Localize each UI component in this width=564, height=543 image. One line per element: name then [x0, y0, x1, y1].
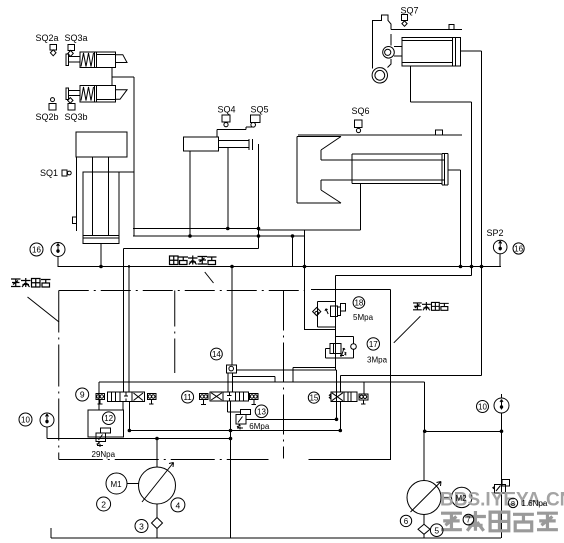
wire clamp cylinders to manifold [112, 77, 134, 236]
valve V15 solenoid drain [361, 400, 366, 404]
switch SQ2b circle [51, 98, 55, 102]
reducing valve U17 left branch [326, 348, 336, 357]
wire main low-pressure line [58, 266, 501, 268]
wedge CL1 clamp finger [116, 55, 127, 63]
switch SQ7 diamond [402, 21, 407, 26]
cylinder SQ4 body [184, 137, 219, 151]
junction dots [231, 265, 234, 268]
relief valve U18 body [330, 306, 337, 316]
svg-text:16: 16 [32, 246, 41, 255]
svg-text:SQ2b: SQ2b [36, 112, 59, 122]
svg-text:SQ4: SQ4 [218, 105, 236, 115]
svg-text:17: 17 [369, 340, 378, 349]
valve U18 arrow [325, 309, 328, 314]
groups inserted below [47, 15, 509, 539]
filter F1 diamond [152, 518, 163, 529]
cylinder SQ1 rod [93, 157, 109, 235]
wire bus A extension [259, 229, 361, 231]
circled 4 [171, 498, 185, 512]
valve V9 solenoid drains [98, 400, 154, 405]
gauge SP2 stub [499, 254, 501, 267]
circled 2 [97, 497, 111, 511]
switch SQ3b diamond [68, 98, 73, 104]
cylinder SQ6 rod [321, 160, 444, 180]
wire valve feed line [99, 382, 425, 431]
svg-text:SQ5: SQ5 [251, 105, 269, 115]
svg-text:14: 14 [212, 350, 221, 359]
circled 9 [76, 388, 89, 401]
switch SQ6 box [355, 120, 363, 128]
wire line to valve9 left [124, 249, 259, 393]
motor M1 circle [106, 473, 127, 494]
cylinder CL2 body [80, 86, 116, 102]
pump P2 circle [407, 481, 441, 515]
valve V13 body [236, 415, 246, 424]
cylinder SQ1 platen [76, 132, 127, 157]
valve V9 body [108, 392, 145, 402]
switch SQ2a box [50, 45, 57, 50]
leader line left manifold label [28, 297, 60, 322]
wedge CL2 clamp finger [116, 90, 127, 100]
circled 7 [463, 514, 474, 525]
svg-text:SQ3b: SQ3b [65, 112, 88, 122]
cylinder CL2 piston lines [94, 86, 115, 102]
wire U18 return [305, 329, 336, 331]
cylinder SQ4 rod end plates [249, 139, 252, 150]
wire CL1 to CL2 [111, 68, 113, 86]
circled 17 [367, 338, 379, 350]
circled 5 [430, 524, 443, 537]
solenoid circles V11 [201, 395, 204, 398]
pump P1 variable arrow [142, 463, 174, 503]
valve V12 relief body [96, 433, 105, 442]
valve V9 dividers and stripes [112, 392, 133, 402]
svg-text:10: 10 [478, 403, 487, 412]
valve V8 body [494, 484, 505, 493]
wire to valve9 right [128, 267, 130, 393]
reducing valve U17 body [330, 343, 333, 353]
switch SQ2a diamond [50, 50, 56, 56]
cylinder SQ7 barrel inner lines [402, 38, 456, 67]
cylinder SQ1 guide tab [73, 217, 77, 224]
spring CL1 [81, 53, 94, 67]
tank line [51, 528, 501, 538]
relief valve U18 side plate [337, 307, 340, 316]
valve V9 center marks [124, 392, 128, 402]
cylinder CL1 piston lines [94, 52, 115, 68]
valve V11 right solenoid [250, 394, 259, 400]
svg-text:5: 5 [434, 526, 439, 536]
wire SQ1 bottom port [100, 244, 102, 267]
svg-text:13: 13 [257, 407, 266, 416]
dashed middle manifold divider [174, 291, 176, 374]
svg-text:5Mpa: 5Mpa [353, 313, 374, 322]
bracket SQ7 small roller circle [383, 47, 395, 59]
pump1 tank return riser [230, 431, 232, 539]
gauge SP2 [493, 240, 507, 254]
circled 12 [102, 412, 115, 425]
wire U14 outlet to main line [236, 369, 336, 371]
svg-text:3: 3 [139, 522, 144, 532]
filter F2 diamond [418, 524, 430, 534]
wire SQ7 rod-end port [461, 51, 482, 375]
wire SQ6 bottom port [359, 184, 361, 231]
leader line right manifold label [394, 316, 421, 343]
bracket SQ6 notch diagonals [321, 137, 341, 204]
wire V15 through lines [337, 370, 364, 431]
svg-text:16: 16 [514, 245, 523, 254]
svg-text:M1: M1 [111, 480, 123, 489]
valve V15 cross position [332, 393, 343, 401]
valve V12 pilot box [101, 428, 111, 433]
svg-text:10: 10 [21, 416, 30, 425]
svg-text:1.6Npa: 1.6Npa [522, 499, 548, 508]
svg-text:29Npa: 29Npa [92, 450, 116, 459]
svg-text:15: 15 [309, 394, 318, 403]
wire V11 bottom port to tank riser [230, 401, 232, 538]
circled 11 [182, 391, 194, 403]
circled 6 [400, 515, 411, 526]
svg-text:6: 6 [404, 517, 409, 526]
circled 14 [211, 348, 223, 360]
gauge PG16 left [51, 243, 65, 257]
wire drop at 292 [292, 236, 294, 267]
switch SQ3a diamond [68, 50, 73, 56]
label 左集成块 [11, 278, 51, 287]
circled 16 left [30, 243, 43, 256]
svg-text:18: 18 [354, 299, 363, 308]
circled 13 [255, 405, 268, 418]
wire SQ7 cap-end port [411, 66, 472, 276]
switch SQ3a box [68, 45, 75, 51]
circled 18 [353, 297, 365, 309]
link M1 to P1 [127, 483, 139, 485]
label 右集成块 [413, 302, 449, 310]
valve V13 arrow and spring [237, 417, 243, 430]
bracket SQ7 hook outline [373, 15, 392, 69]
dashed manifold bottom edge [59, 459, 269, 461]
wire SQ4 rod-end down [258, 144, 260, 249]
wire SQ1 right port [119, 171, 134, 173]
cylinder CL1 body [80, 52, 116, 68]
motor M2 circle [452, 487, 472, 507]
wire upper-right return path [336, 276, 472, 371]
dashed manifold top edge [59, 290, 305, 292]
wire SQ7 branch horizontal [340, 374, 481, 376]
pump P2 supply riser [423, 431, 425, 538]
cylinder SQ6 barrel [352, 154, 448, 185]
pump P1 supply riser [156, 439, 158, 539]
circled 10 left [19, 413, 32, 426]
watermark line 2 [441, 511, 558, 531]
svg-text:SQ6: SQ6 [352, 106, 370, 116]
solenoid circles V9 [97, 395, 100, 398]
pump P1 circle [139, 467, 176, 504]
valve V8 arrow [493, 486, 501, 492]
svg-text:6Mpa: 6Mpa [249, 422, 270, 431]
gauge PG10 right [494, 398, 509, 413]
valve V9 right solenoid [147, 394, 156, 400]
switch SQ1 box [62, 170, 67, 176]
switch SQ5 box [251, 115, 261, 123]
relief valve U18 pilot box [340, 303, 345, 310]
valve V9 left solenoid [96, 394, 105, 400]
switch SQ4 circle [224, 123, 228, 127]
svg-text:2: 2 [101, 500, 106, 510]
cylinder SQ1 piston lines [83, 235, 119, 238]
check valve U18 diamond [313, 308, 321, 316]
wire SQ4 cap-end port [189, 151, 191, 236]
solenoid circles V15 [360, 395, 363, 398]
wire drop to check 14 [231, 267, 233, 366]
svg-text:SQ7: SQ7 [401, 6, 419, 16]
valve V11 center marks [227, 392, 231, 401]
link M2 to P2 [441, 496, 452, 498]
svg-text:SQ2a: SQ2a [36, 33, 59, 43]
wire right gauge riser [501, 394, 503, 538]
valve V15 spring [329, 394, 331, 399]
switch SQ6 circle [356, 128, 360, 132]
wire SQ4 rod-side port [227, 147, 229, 228]
svg-text:SQ1: SQ1 [40, 168, 58, 178]
cylinder SQ7 barrel [402, 38, 461, 67]
svg-text:11: 11 [183, 393, 192, 402]
valve V15 divider and stripes [344, 392, 351, 402]
rail bump SQ6 [436, 130, 443, 135]
svg-text:9: 9 [80, 390, 85, 400]
valve V11 cross position [211, 393, 222, 400]
switch rail above SQ7 cylinder [391, 29, 462, 31]
switch SQ3b box [68, 104, 75, 111]
gauge10 left stub [46, 427, 48, 439]
wire bus B [133, 235, 305, 237]
right manifold box outline [309, 290, 391, 460]
pump P2 variable arrow [411, 482, 442, 513]
cylinder CL1 (upper clamp cylinder) rod T-bar [66, 54, 69, 66]
svg-text:7: 7 [466, 516, 471, 525]
svg-text:8: 8 [511, 499, 515, 508]
switch rail above SQ6 cylinder [298, 134, 462, 136]
svg-text:M2: M2 [456, 494, 468, 503]
junction dot valve9 line [128, 265, 131, 268]
wire valve13 to valve15 [246, 418, 337, 420]
wire V11 second bottom port to valve13 [228, 401, 241, 412]
valve U17 arrow and spring [340, 348, 346, 357]
svg-text:4: 4 [176, 500, 181, 510]
gauge16 left stub [57, 257, 59, 267]
switch SQ2b box [49, 104, 56, 111]
valve V11 solenoid drains [201, 400, 256, 405]
valve V13 pilot box [241, 410, 251, 415]
valve V11 body [210, 392, 248, 401]
cylinder CL2 rod [69, 91, 81, 96]
circled 8 [508, 498, 517, 507]
label 中间集成块 [170, 256, 217, 265]
cylinder SQ1 body [83, 172, 119, 244]
wire SQ6 rod-end port [448, 170, 461, 267]
valve V11 left solenoid [200, 394, 209, 400]
cylinder CL1 rod [69, 57, 81, 62]
circled 15 [308, 392, 319, 403]
svg-text:SQ3a: SQ3a [65, 33, 88, 43]
wire V9 bottom ports [123, 402, 129, 431]
circled 3 [135, 520, 148, 533]
cylinder SQ7 rod stub [394, 47, 402, 57]
dashed left manifold edge [58, 291, 60, 460]
switch rail above SQ4 [217, 127, 252, 137]
check valve U14 circle [229, 366, 234, 371]
circled 16 right [513, 243, 524, 254]
gauge PG10 left [40, 413, 54, 427]
valve V8 pilot box [502, 480, 510, 486]
valve V12 arrow and spring [97, 435, 103, 448]
wire drop to relief 18 [304, 230, 306, 330]
bracket SQ6 outline [297, 137, 341, 204]
cylinder SQ1 left guide rail [75, 157, 77, 231]
switch SQ5 circle [251, 123, 256, 128]
wire U14 pilot lines down [228, 373, 275, 392]
wire gauge bus to pump1 [47, 438, 231, 440]
svg-text:12: 12 [104, 414, 113, 423]
valve V11 dividers and stripes [223, 392, 244, 401]
dashed middle manifold right edge [283, 291, 285, 459]
cylinder SQ4 rod [219, 141, 250, 148]
switch SQ1 circle [67, 171, 71, 175]
switch SQ7 box [402, 15, 408, 21]
valve V15 solenoid [359, 394, 368, 400]
spring CL2 [81, 87, 94, 101]
circled 10 right [477, 401, 489, 413]
bracket SQ7 big roller circle [372, 68, 387, 83]
wire pilot jog line [293, 368, 336, 383]
relief valve U18 branch [317, 302, 335, 327]
leader line middle manifold label [205, 272, 214, 283]
valve V12 enclosure [88, 410, 123, 437]
valve U14 pilot box [226, 365, 236, 373]
rail bump SQ7 [449, 25, 454, 30]
svg-text:3Mpa: 3Mpa [367, 356, 388, 365]
cylinder CL2 (lower clamp cylinder) rod T-bar [66, 88, 69, 100]
valve U17 check ball circle [351, 344, 357, 350]
wire lower right bus [424, 430, 502, 432]
switch SQ4 box [222, 115, 230, 122]
valve V15 body [331, 392, 357, 402]
wire bus A [133, 228, 259, 230]
wire return bus lower [129, 430, 340, 432]
reducing valve U17 right branch [336, 337, 354, 359]
svg-text:SP2: SP2 [487, 228, 504, 238]
valve V9 cross position [134, 393, 144, 401]
